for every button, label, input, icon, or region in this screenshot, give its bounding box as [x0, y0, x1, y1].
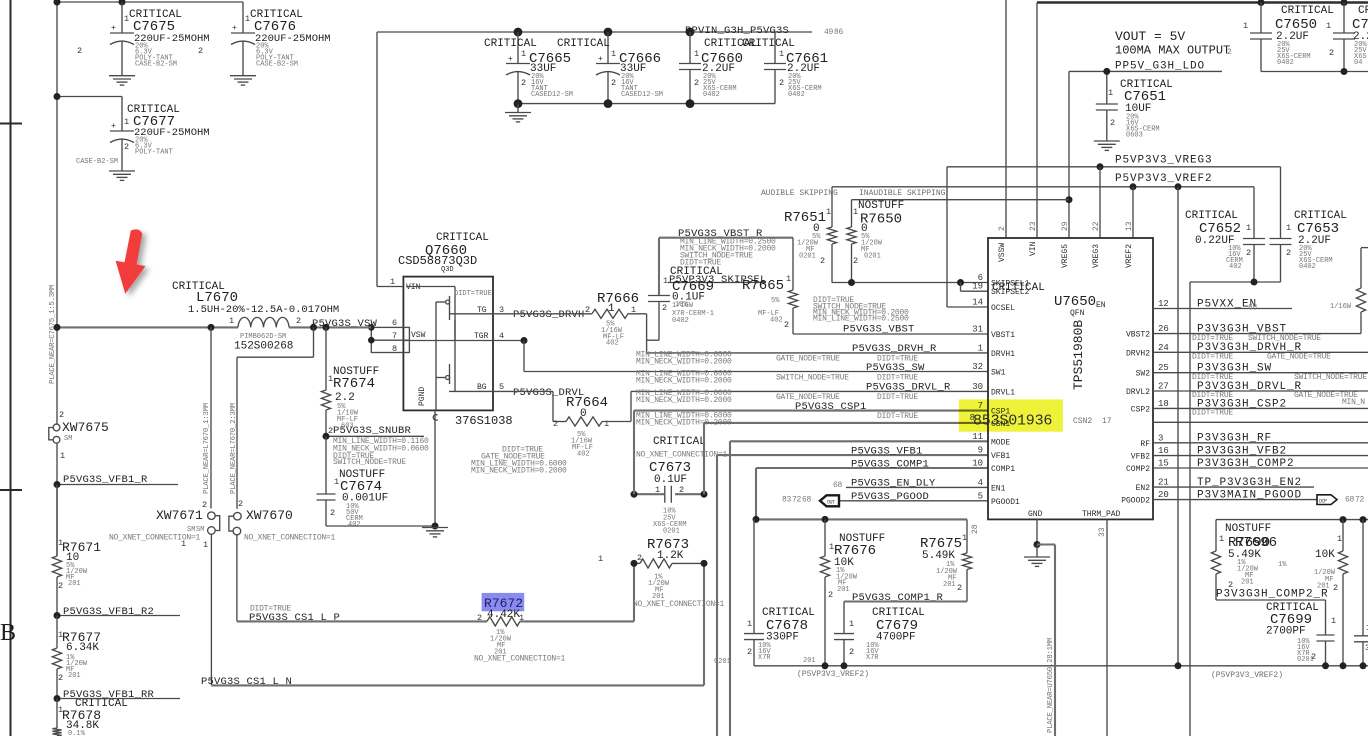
svg-text:2: 2 — [820, 256, 825, 266]
wire TG to R7666 — [493, 313, 592, 315]
svg-text:BG: BG — [477, 383, 487, 392]
wire VREG5 vertical pin 29 — [1068, 71, 1070, 238]
svg-text:6.34K: 6.34K — [66, 642, 99, 654]
svg-text:2: 2 — [296, 316, 301, 326]
capacitor C7676 — [242, 2, 244, 33]
svg-text:NO_XNET_CONNECTION=1: NO_XNET_CONNECTION=1 — [633, 600, 724, 609]
svg-text:2: 2 — [849, 647, 854, 657]
capacitor C7661 — [774, 32, 776, 64]
wire P5VG3S_SW — [493, 340, 524, 342]
svg-text:12: 12 — [1158, 299, 1169, 309]
junction C7650 top — [1258, 0, 1265, 6]
svg-text:DIDT=TRUE: DIDT=TRUE — [1192, 409, 1233, 418]
wire SKIPSEL1 net — [668, 282, 766, 284]
svg-text:VOUT = 5V: VOUT = 5V — [1115, 29, 1185, 44]
junction top-left rail x57 — [54, 0, 61, 6]
svg-text:5: 5 — [978, 491, 983, 501]
wire R7666 to DRVH_R corner — [628, 313, 647, 315]
svg-text:1: 1 — [962, 533, 967, 543]
svg-text:DRVH1: DRVH1 — [991, 350, 1015, 359]
svg-text:22: 22 — [1092, 221, 1101, 231]
wire VREF2 long vertical — [1177, 187, 1179, 666]
svg-text:CASE-B2-SM: CASE-B2-SM — [256, 61, 298, 69]
junction XW7670 branch — [310, 324, 317, 331]
svg-text:4.42K: 4.42K — [487, 609, 520, 621]
junction VSW pin7 — [368, 337, 375, 344]
svg-text:VREF2: VREF2 — [1125, 244, 1134, 268]
svg-text:0603: 0603 — [1126, 132, 1143, 140]
svg-text:+: + — [508, 55, 513, 64]
wire P3V3G3H_RF — [1153, 442, 1368, 444]
wire VSW to Q7660 — [289, 326, 371, 328]
svg-text:4700PF: 4700PF — [876, 632, 916, 644]
junction C7660 top — [686, 28, 695, 37]
svg-text:20: 20 — [1158, 490, 1169, 500]
capacitor C7660 — [689, 32, 691, 64]
svg-text:2: 2 — [330, 508, 335, 518]
svg-text:100MA MAX OUTPUT: 100MA MAX OUTPUT — [1115, 44, 1230, 58]
wire mid caps ground rail — [518, 103, 775, 105]
svg-text:2: 2 — [58, 581, 63, 591]
offpage connector PGOOD1 — [820, 495, 839, 506]
resistor R7675 — [966, 519, 968, 553]
resistor R7672 — [487, 617, 520, 626]
svg-text:17: 17 — [1102, 417, 1112, 426]
svg-text:R7665: R7665 — [742, 278, 784, 294]
junction VREF2 pin 13 tap — [1130, 183, 1137, 190]
svg-text:P5VG3S_DRVH: P5VG3S_DRVH — [513, 309, 585, 321]
svg-text:PLACE_NEAR=L7670_2:3MM: PLACE_NEAR=L7670_2:3MM — [230, 403, 238, 494]
wire vertical x1190 to bottom — [1189, 282, 1191, 736]
svg-text:MIN_N: MIN_N — [1342, 398, 1365, 407]
svg-text:NOSTUFF: NOSTUFF — [858, 200, 904, 212]
wire P5VG3S_EN_DLY — [846, 486, 988, 488]
svg-text:11: 11 — [972, 432, 983, 442]
mosfet Q7660 high-side — [406, 286, 455, 288]
junction XW7671 branch — [208, 324, 215, 331]
svg-text:0402: 0402 — [788, 91, 805, 99]
svg-text:1: 1 — [1108, 88, 1113, 98]
resistor R7677 — [56, 616, 58, 649]
transistor Q7660 package box — [403, 277, 493, 411]
svg-text:24: 24 — [1158, 343, 1169, 353]
jumper XW7670 — [234, 512, 242, 520]
svg-text:2700PF: 2700PF — [1266, 626, 1306, 638]
svg-text:29: 29 — [1061, 221, 1070, 231]
capacitor C7675 — [121, 2, 123, 33]
capacitor C7674 (NOSTUFF) — [325, 436, 327, 494]
svg-text:COMP2: COMP2 — [1126, 465, 1150, 474]
svg-text:P5VG3S_COMP1: P5VG3S_COMP1 — [851, 459, 929, 471]
wire P3V3G3H_SW — [1153, 372, 1368, 374]
wire PGND drop — [434, 410, 436, 526]
wire P5VG3S_CSP1 — [634, 410, 988, 412]
resistor R7651 — [831, 187, 833, 227]
svg-text:1: 1 — [779, 49, 784, 59]
highlight R7672 blue — [482, 593, 525, 611]
svg-text:P5VG3S_VBST: P5VG3S_VBST — [843, 324, 915, 336]
wire P5VG3S_VSW from left rail — [57, 326, 238, 328]
svg-text:330PF: 330PF — [766, 632, 799, 644]
wire P3V3G3H_CSP2 — [1153, 407, 1368, 409]
capacitor C7678 — [753, 519, 755, 633]
svg-text:COMP1: COMP1 — [991, 465, 1015, 474]
svg-text:402: 402 — [770, 317, 783, 325]
svg-text:25: 25 — [1158, 363, 1169, 373]
svg-text:P5VG3S_VFB1: P5VG3S_VFB1 — [851, 446, 923, 458]
svg-text:SWITCH_NODE=TRUE: SWITCH_NODE=TRUE — [776, 374, 849, 383]
svg-text:0: 0 — [580, 408, 587, 420]
wire SKIPSEL2 drop to pin 19 — [960, 283, 962, 292]
svg-text:2: 2 — [828, 590, 833, 600]
wire CSN1 riser — [703, 423, 705, 494]
ground mid caps — [517, 104, 519, 113]
svg-text:CRITICAL: CRITICAL — [653, 436, 706, 448]
wire OCSEL to pin 14 — [947, 306, 988, 308]
svg-text:2: 2 — [747, 647, 752, 657]
svg-text:14: 14 — [972, 298, 983, 308]
wire VIN pin 1 stub — [377, 286, 403, 288]
junction R7650 tap on VREG5 — [1066, 196, 1073, 203]
wire P3V3G3H_DRVH_R — [1153, 351, 1368, 353]
resistor R7671 — [56, 485, 58, 557]
svg-text:1: 1 — [608, 303, 615, 315]
svg-text:1: 1 — [849, 619, 854, 629]
svg-text:10: 10 — [972, 459, 983, 469]
svg-text:8: 8 — [392, 344, 397, 354]
capacitor C7665 — [517, 32, 519, 64]
svg-text:DRVH2: DRVH2 — [1126, 349, 1150, 358]
svg-text:2: 2 — [1227, 48, 1232, 57]
svg-text:P5VG3S_DRVL_R: P5VG3S_DRVL_R — [866, 382, 951, 394]
svg-text:2: 2 — [1246, 248, 1251, 258]
wire P3V3G3H_COMP2 — [1153, 467, 1368, 469]
svg-text:1: 1 — [124, 117, 129, 127]
svg-text:VFB1: VFB1 — [991, 452, 1010, 461]
svg-text:X7R: X7R — [866, 654, 879, 662]
svg-text:2: 2 — [662, 303, 667, 313]
svg-text:1: 1 — [853, 207, 858, 217]
wire PPVIN top-left rail — [57, 1, 243, 3]
wire C7652/C7653 bottom rail — [1190, 281, 1281, 283]
svg-text:CASED12-SM: CASED12-SM — [621, 91, 663, 99]
svg-text:2: 2 — [58, 673, 63, 683]
jumper XW7675 — [56, 411, 58, 424]
wire P5VG3S_VFB1 — [717, 454, 988, 456]
capacitor C7653 — [1280, 167, 1282, 239]
svg-text:P5VG3S_CSP1: P5VG3S_CSP1 — [795, 401, 867, 413]
svg-text:P3V3MAIN_PGOOD: P3V3MAIN_PGOOD — [1197, 490, 1302, 502]
svg-text:P5VG3S_PGOOD: P5VG3S_PGOOD — [851, 491, 929, 503]
svg-text:MIN_LINE_WIDTH=0.2500: MIN_LINE_WIDTH=0.2500 — [813, 315, 909, 324]
wire OCSEL branch vertical — [946, 167, 948, 307]
svg-text:VIN: VIN — [1029, 241, 1038, 256]
wire PP5V_G3H_LDO — [1069, 70, 1222, 72]
svg-text:26: 26 — [1158, 324, 1169, 334]
svg-text:OCSEL: OCSEL — [991, 304, 1015, 313]
svg-text:2: 2 — [553, 419, 558, 429]
svg-text:2: 2 — [59, 410, 64, 420]
svg-text:P5VG3S_VSW: P5VG3S_VSW — [312, 318, 378, 330]
svg-text:MODE: MODE — [991, 438, 1010, 447]
svg-text:1: 1 — [598, 554, 603, 564]
svg-text:0201: 0201 — [864, 253, 881, 261]
svg-text:72: 72 — [792, 496, 802, 505]
svg-text:(P5VP3V3_VREF2): (P5VP3V3_VREF2) — [1211, 671, 1283, 680]
svg-text:NO_XNET_CONNECTION=1: NO_XNET_CONNECTION=1 — [474, 655, 565, 664]
sheet border left edge — [10, 0, 12, 736]
svg-text:1: 1 — [1326, 21, 1331, 31]
svg-text:0402: 0402 — [1277, 59, 1294, 67]
svg-text:04: 04 — [1354, 59, 1362, 67]
svg-text:201: 201 — [1241, 579, 1254, 587]
svg-text:3: 3 — [1158, 433, 1163, 443]
svg-text:EN2: EN2 — [1136, 484, 1151, 493]
svg-text:68: 68 — [833, 481, 843, 490]
svg-text:+: + — [111, 122, 116, 131]
svg-text:MIN_NECK_WIDTH=0.2000: MIN_NECK_WIDTH=0.2000 — [471, 467, 567, 476]
svg-text:10K: 10K — [1315, 549, 1335, 561]
svg-text:1: 1 — [826, 207, 831, 217]
svg-text:PGOOD1: PGOOD1 — [991, 498, 1020, 507]
svg-text:SWITCH_NODE=TRUE: SWITCH_NODE=TRUE — [1294, 373, 1367, 382]
wire CS1_L_P riser to CSP1 — [633, 563, 635, 621]
svg-text:1: 1 — [655, 485, 660, 495]
svg-text:30: 30 — [972, 382, 983, 392]
ground C7676 — [230, 76, 256, 85]
svg-text:2: 2 — [1110, 118, 1115, 128]
svg-text:1/16W: 1/16W — [1330, 303, 1352, 311]
svg-text:CASED12-SM: CASED12-SM — [531, 91, 573, 99]
svg-text:402: 402 — [606, 340, 619, 348]
svg-text:XW7675: XW7675 — [62, 420, 109, 435]
svg-text:15: 15 — [1158, 459, 1169, 469]
wire CSP1 riser — [633, 411, 635, 495]
svg-text:PPVIN_G3H_P5VG3S: PPVIN_G3H_P5VG3S — [685, 25, 789, 37]
svg-text:1: 1 — [521, 49, 526, 59]
svg-text:1: 1 — [978, 343, 983, 353]
svg-text:1: 1 — [229, 316, 234, 326]
svg-text:49: 49 — [824, 28, 834, 37]
svg-text:VFB2: VFB2 — [1131, 453, 1150, 462]
inductor L7670 — [238, 317, 289, 327]
svg-text:(P5VP3V3_VREF2): (P5VP3V3_VREF2) — [797, 670, 869, 679]
svg-text:+: + — [598, 55, 603, 64]
svg-text:2: 2 — [694, 78, 699, 88]
svg-text:P5VG3S_VFB1_R2: P5VG3S_VFB1_R2 — [63, 606, 154, 618]
junction P5VG3S_SNUBR — [323, 433, 330, 440]
wire TGR internal VSW line — [403, 340, 493, 342]
svg-text:68: 68 — [1248, 304, 1258, 313]
svg-text:CRITICAL: CRITICAL — [1358, 5, 1368, 17]
svg-text:GATE_NODE=TRUE: GATE_NODE=TRUE — [1267, 353, 1331, 362]
wire XW7670 to CS1_L_P — [236, 535, 238, 622]
wire C7650 bottom rail — [1261, 71, 1368, 73]
junction SKIPSEL2 tap — [957, 279, 964, 286]
wire P5VG3S_COMP1_R — [844, 600, 967, 602]
junction PGND ground — [432, 523, 439, 530]
junction snubber branch — [323, 324, 330, 331]
wire VREF2 vertical pin 13 — [1132, 187, 1134, 238]
svg-text:RF: RF — [1140, 440, 1150, 449]
svg-text:NOSTUFF: NOSTUFF — [1225, 523, 1271, 535]
svg-text:1/16W: 1/16W — [672, 302, 694, 310]
svg-text:2: 2 — [77, 46, 82, 56]
wire PPVIN_G3H_P5VG3S rail — [377, 31, 812, 33]
svg-text:P5VG3S_EN_DLY: P5VG3S_EN_DLY — [851, 478, 936, 490]
resistor R7676 (NOSTUFF) — [824, 519, 826, 556]
svg-text:THRM_PAD: THRM_PAD — [1082, 510, 1121, 519]
svg-text:1: 1 — [1246, 223, 1251, 233]
wire place-near grey drop — [1037, 543, 1055, 545]
jumper XW7671 — [208, 512, 216, 520]
svg-text:1: 1 — [1286, 223, 1291, 233]
svg-text:28: 28 — [971, 524, 980, 534]
svg-text:EN1: EN1 — [991, 484, 1006, 493]
svg-text:2: 2 — [611, 78, 616, 88]
wire P3V3G3H_DRVL_R — [1153, 390, 1368, 392]
svg-text:VBST2: VBST2 — [1126, 331, 1150, 340]
wire P3V3G3H_COMP2_R — [1216, 599, 1326, 601]
svg-text:1.2K: 1.2K — [657, 550, 684, 562]
wire CSN1 — [704, 422, 988, 424]
vsw bundle box pins 6 7 8 — [371, 327, 409, 352]
ground C7675 — [109, 76, 135, 85]
svg-text:R7674: R7674 — [333, 376, 375, 392]
svg-text:5.49K: 5.49K — [922, 550, 955, 562]
wire XW7671 drop from VSW — [210, 327, 212, 508]
svg-text:2: 2 — [585, 305, 590, 315]
svg-text:1: 1 — [1243, 21, 1248, 31]
svg-text:0.1%: 0.1% — [68, 730, 86, 736]
svg-text:2: 2 — [477, 613, 482, 623]
svg-text:2: 2 — [637, 553, 642, 563]
svg-text:X7R: X7R — [758, 654, 771, 662]
wire CS1_L_N riser — [703, 563, 705, 685]
svg-text:4: 4 — [978, 478, 983, 488]
svg-text:DIDT=TRUE: DIDT=TRUE — [877, 412, 918, 421]
svg-text:EN: EN — [1096, 301, 1106, 310]
capacitor C76xx right edge — [1343, 3, 1345, 34]
svg-text:402: 402 — [577, 451, 590, 459]
svg-text:1: 1 — [60, 451, 65, 461]
wire P5VG3S_VBST_R — [659, 237, 793, 239]
wire VIN vertical to chip pin 23 — [1036, 3, 1038, 239]
svg-text:1: 1 — [1331, 616, 1336, 626]
wire P5VG3S_VBST — [793, 333, 988, 335]
annotation red arrow — [116, 229, 146, 293]
ground PGND — [422, 528, 448, 537]
wire P5VXX_EN — [1153, 308, 1292, 310]
svg-text:1: 1 — [1219, 534, 1224, 544]
svg-text:19: 19 — [972, 282, 983, 292]
svg-text:Q3D: Q3D — [441, 266, 454, 274]
svg-text:1: 1 — [390, 277, 395, 287]
svg-text:18: 18 — [1158, 399, 1169, 409]
wire VREF2 bottom rail — [754, 665, 1368, 667]
wire P5VG3S_CS1_L_N — [211, 684, 704, 686]
resistor R7664 — [566, 417, 602, 426]
junction VSW pin6 — [368, 324, 375, 331]
svg-text:VSW: VSW — [411, 331, 426, 340]
svg-text:XW7670: XW7670 — [246, 508, 293, 523]
capacitor C7673 — [634, 493, 664, 495]
wire P5VG3S_DRVL_R — [631, 390, 988, 392]
ground C7677 — [109, 171, 135, 180]
wire P5VG3S_COMP1 — [756, 467, 988, 469]
wire C7674 to ground — [326, 525, 435, 527]
svg-text:DIDT=TRUE: DIDT=TRUE — [1192, 353, 1233, 362]
svg-text:PP5V_G3H_LDO: PP5V_G3H_LDO — [1115, 61, 1205, 73]
svg-text:86: 86 — [834, 28, 844, 37]
svg-text:R7664: R7664 — [566, 395, 608, 411]
svg-text:402: 402 — [1229, 263, 1242, 271]
svg-text:P5VG3S_COMP1_R: P5VG3S_COMP1_R — [852, 592, 944, 604]
svg-text:9: 9 — [978, 446, 983, 456]
svg-text:GND: GND — [1028, 510, 1043, 519]
svg-text:152S00268: 152S00268 — [234, 341, 293, 353]
svg-text:B: B — [0, 620, 16, 646]
svg-text:SM: SM — [64, 435, 72, 443]
capacitor C7652 — [1253, 187, 1255, 239]
svg-text:P5VP3V3_VREG3: P5VP3V3_VREG3 — [1115, 155, 1213, 167]
wire C7669 pin2 join — [647, 339, 659, 341]
svg-text:1: 1 — [604, 419, 609, 429]
svg-text:2: 2 — [957, 583, 962, 593]
svg-text:QFN: QFN — [1070, 309, 1085, 318]
svg-text:NO_XNET_CONNECTION=1: NO_XNET_CONNECTION=1 — [109, 534, 200, 543]
svg-text:U7650: U7650 — [1054, 294, 1096, 310]
svg-text:1: 1 — [663, 276, 668, 286]
svg-text:VSSW: VSSW — [998, 243, 1007, 262]
svg-text:P5VP3V3_VREF2: P5VP3V3_VREF2 — [1115, 173, 1213, 185]
svg-text:21: 21 — [1158, 478, 1169, 488]
svg-text:2: 2 — [1286, 248, 1291, 258]
svg-text:CRITICAL: CRITICAL — [742, 38, 795, 50]
svg-text:201: 201 — [837, 586, 850, 594]
resistor R7666 — [592, 309, 628, 318]
wire snubber vertical — [325, 327, 327, 390]
svg-text:CSN2: CSN2 — [1073, 417, 1092, 426]
wire C7677 branch — [57, 96, 122, 98]
wire BG to R7664 — [493, 390, 553, 392]
svg-text:2: 2 — [1311, 652, 1316, 662]
capacitor C7666 — [607, 32, 609, 64]
capacitor C7650 — [1260, 3, 1262, 34]
svg-text:PLACE_NEAR=U7650.28:1MM: PLACE_NEAR=U7650.28:1MM — [1047, 638, 1055, 733]
svg-text:POLY-TANT: POLY-TANT — [135, 149, 173, 157]
svg-text:SW2: SW2 — [1136, 370, 1151, 379]
svg-text:0201: 0201 — [799, 253, 816, 261]
svg-text:P3V3G3H_RF: P3V3G3H_RF — [1197, 433, 1272, 445]
wire P3V3G3H_CSN2 — [1153, 421, 1368, 423]
wire XW7670 jog from VSW — [313, 327, 315, 357]
svg-text:PLACE_NEAR=L7670_1:3MM: PLACE_NEAR=L7670_1:3MM — [203, 403, 211, 494]
svg-text:0201: 0201 — [663, 528, 680, 536]
svg-text:TPS51980B: TPS51980B — [1071, 320, 1086, 390]
svg-text:2: 2 — [779, 78, 784, 88]
svg-text:PGND: PGND — [418, 387, 427, 406]
svg-text:201: 201 — [943, 581, 956, 589]
svg-text:P3V3G3H_COMP2: P3V3G3H_COMP2 — [1197, 458, 1295, 470]
capacitor C7677 — [121, 97, 123, 132]
svg-text:31: 31 — [972, 325, 983, 335]
wire P3V3MAIN_PGOOD — [1153, 499, 1317, 501]
wire VSSW vertical pin 2 — [1005, 0, 1007, 238]
wire P5VP3V3_VREF2 — [832, 186, 1254, 188]
svg-text:1: 1 — [747, 619, 752, 629]
svg-text:CSD58873Q3D: CSD58873Q3D — [398, 254, 477, 268]
